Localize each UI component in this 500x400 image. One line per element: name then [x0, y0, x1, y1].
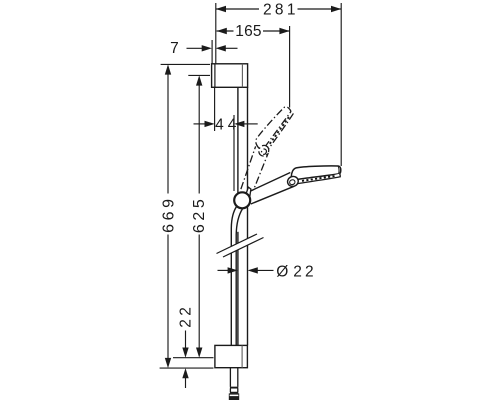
svg-text:669: 669 [160, 195, 177, 233]
svg-text:625: 625 [191, 196, 208, 234]
svg-text:22: 22 [293, 263, 316, 280]
svg-text:281: 281 [263, 2, 299, 19]
svg-text:22: 22 [178, 304, 195, 328]
svg-text:4: 4 [215, 116, 224, 133]
svg-text:7: 7 [170, 40, 179, 57]
svg-text:165: 165 [235, 23, 261, 40]
svg-text:4: 4 [228, 116, 237, 133]
svg-text:Ø: Ø [276, 263, 288, 280]
